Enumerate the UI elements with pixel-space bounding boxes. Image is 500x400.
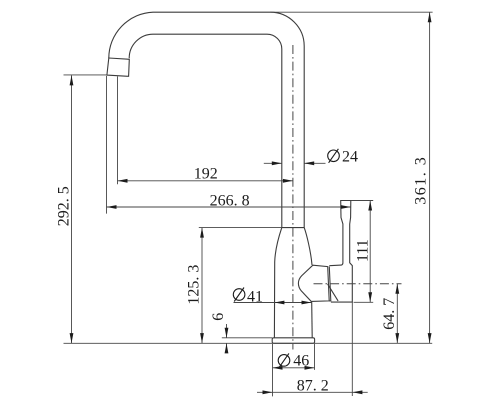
body joint line [282,227,304,229]
spout outer profile [109,12,304,227]
arrow dia46 left (points left) [273,366,283,370]
arrow 125.3 bottom (down) [200,333,204,343]
svg-text:125. 3: 125. 3 [186,265,203,305]
base flange [272,338,314,344]
svg-text:64. 7: 64. 7 [381,298,398,330]
svg-text:41: 41 [247,288,263,305]
dimension line 192 [118,180,293,182]
dimension line 266.8 [107,206,351,208]
extension line 111 top [351,200,373,202]
arrow 361.3 bottom (down) [428,333,432,343]
arrow 111 bottom (down) [368,292,372,302]
svg-text:192: 192 [194,166,218,183]
arrow 266.8 right [341,205,351,209]
arrow 361.3 top (up) [428,12,432,22]
dimension line 361.3 [429,12,431,343]
dimension line 111 [369,201,371,303]
svg-text:292. 5: 292. 5 [56,186,73,226]
spout inner profile [129,34,282,227]
extension line top (faucet top) [270,11,432,13]
valve joint second line [329,267,331,301]
valve diagonal edge [328,284,339,301]
extension line tip center [117,76,119,184]
arrow 111 top (up) [368,201,372,211]
dimension line dia41 [234,302,312,304]
body left flare [274,228,281,338]
arrow dia41 left (points left) [274,301,284,305]
centerline pipe (dash-dot) [292,45,294,350]
arrow dia41 right (points right) [302,301,312,305]
extension line dia46 left [272,344,274,397]
svg-text:361. 3: 361. 3 [413,156,430,205]
handle lever [329,201,352,303]
extension line dia46 right [314,344,316,370]
aerator tip [107,58,129,76]
arrow 87.2 right (points left, outside) [352,390,362,394]
arrow 192 left [118,179,128,183]
arrow 292.5 bottom (down) [70,333,74,343]
dimension line 87.2 [257,391,368,393]
extension line 111 bottom [354,301,374,303]
svg-text:87. 2: 87. 2 [297,377,329,394]
extension line flange top [222,337,272,339]
valve housing [298,265,329,301]
svg-text:266. 8: 266. 8 [210,192,250,209]
diameter symbol for 46 [278,355,290,367]
extension line spout tip level [64,74,107,76]
arrow dia24 left (points right) [272,161,282,165]
arrow 6 top (down) [225,328,229,338]
arrow 87.2 left (points right, outside) [263,390,273,394]
dimension line 125.3 [201,228,203,344]
arrow 266.8 left [107,205,117,209]
centerline valve axis (dash-dot) [314,283,402,285]
body right lower [311,302,314,338]
svg-text:24: 24 [342,148,358,165]
arrow 125.3 top (up) [200,228,204,238]
arrow 292.5 top (up) [70,75,74,85]
svg-text:46: 46 [293,352,309,369]
dimension line 6 [226,324,228,350]
dimension line dia46 [273,367,315,369]
svg-text:111: 111 [354,239,371,262]
arrow 64.7 top (up) [395,284,399,294]
dimension line dia24 [264,162,326,164]
extension line joint level [199,227,282,229]
arrow dia46 right (points right) [305,366,315,370]
extension line tip left [106,76,108,214]
arrow 64.7 bottom (down) [395,333,399,343]
diameter symbol for 24 [328,150,340,162]
body right flare [304,228,312,265]
extension line 87.2 right (handle edge projection) [351,302,353,396]
dimension line 292.5 [71,75,73,343]
arrow dia24 right (points left) [304,161,314,165]
dimension line 64.7 [396,284,398,343]
svg-text:6: 6 [210,313,227,321]
arrow 6 bottom (up) [225,343,229,353]
diameter symbol for 41 [233,289,245,301]
deck line [64,342,433,344]
arrow 192 right [283,179,293,183]
